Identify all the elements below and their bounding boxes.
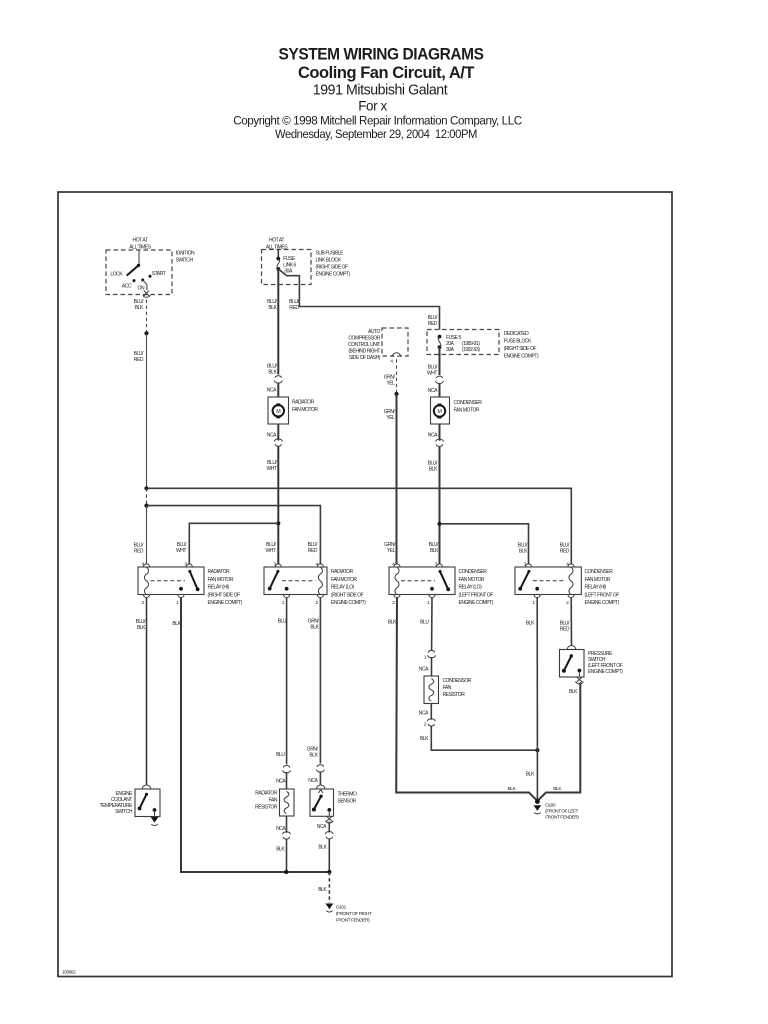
engine coolant temperature switch bbox=[135, 789, 160, 817]
svg-text:WHT: WHT bbox=[266, 466, 276, 472]
svg-text:(1992-93): (1992-93) bbox=[462, 347, 480, 353]
svg-text:NCA: NCA bbox=[317, 824, 327, 830]
svg-text:BLK: BLK bbox=[309, 753, 318, 759]
svg-text:NCA: NCA bbox=[419, 711, 429, 717]
wire GRN/YEL control unit to splice bbox=[384, 359, 397, 394]
wire BLU/RED splice to bus junction bbox=[134, 333, 147, 488]
condenser fan motor label bbox=[454, 400, 483, 414]
thermo sensor bottom connector bbox=[326, 816, 333, 823]
relay radiator fan motor LO label bbox=[331, 569, 366, 606]
relay radiator fan motor HI pin 4 bbox=[142, 562, 150, 568]
relay radiator fan motor HI switch lever bbox=[151, 570, 200, 591]
radiator fan resistor label bbox=[255, 791, 278, 811]
svg-text:DEDICATED: DEDICATED bbox=[504, 331, 529, 337]
relay radiator fan motor LO pin 3 bbox=[273, 562, 281, 568]
svg-text:SUB FUSIBLE: SUB FUSIBLE bbox=[316, 251, 345, 257]
svg-text:AUTO: AUTO bbox=[368, 329, 381, 335]
fuse link 6 bbox=[276, 256, 296, 275]
relay condenser fan motor HI pin 2 bbox=[566, 595, 574, 606]
relay radiator fan motor HI pin 1 bbox=[176, 595, 184, 606]
bus wire BLU/RED to radiator relay LO pin 4 bbox=[147, 506, 321, 565]
hook wire BLU/BLK condenser motor wire to condenser relay HI pin 3 bbox=[440, 524, 529, 564]
svg-text:BLK: BLK bbox=[388, 620, 397, 626]
svg-text:BLK: BLK bbox=[430, 548, 439, 554]
engine coolant temperature switch label bbox=[100, 791, 134, 815]
pressure switch label bbox=[588, 651, 623, 675]
svg-text:NCA: NCA bbox=[267, 388, 277, 394]
svg-text:YEL: YEL bbox=[386, 415, 395, 421]
svg-text:HOT AT: HOT AT bbox=[133, 238, 148, 244]
svg-text:NCA: NCA bbox=[267, 433, 277, 439]
relay radiator fan motor LO pin 1 bbox=[282, 595, 290, 606]
svg-text:ENGINE COMPT): ENGINE COMPT) bbox=[208, 600, 243, 606]
svg-text:HOT AT: HOT AT bbox=[269, 238, 284, 244]
wire BLU/BLK ignition switch to splice bbox=[134, 299, 147, 333]
relay radiator fan motor HI label bbox=[208, 569, 243, 606]
svg-text:SWITCH: SWITCH bbox=[115, 809, 133, 815]
svg-text:G101: G101 bbox=[336, 905, 347, 911]
wire BLK radiator fan resistor to ground run bbox=[276, 816, 290, 872]
svg-text:FAN MOTOR: FAN MOTOR bbox=[292, 407, 318, 413]
svg-text:RELAY (LO): RELAY (LO) bbox=[331, 585, 355, 591]
svg-text:ENGINE COMPT): ENGINE COMPT) bbox=[504, 354, 539, 360]
wire GRN/BLK relay to thermo sensor bbox=[307, 598, 325, 789]
node HOT AT ALL TIMES (fusible link) bbox=[266, 238, 288, 251]
wire dashed between bus junctions bbox=[146, 488, 148, 505]
svg-text:RELAY (HI): RELAY (HI) bbox=[585, 585, 607, 591]
condenser fan resistor bbox=[424, 676, 439, 704]
junction bus 2 left end bbox=[144, 504, 148, 508]
svg-text:RESISTOR: RESISTOR bbox=[255, 805, 278, 811]
svg-text:BLK: BLK bbox=[310, 625, 319, 631]
relay condenser fan motor HI pin 1 bbox=[532, 595, 540, 606]
svg-text:BLK: BLK bbox=[318, 845, 327, 851]
splice GRN/YEL bbox=[394, 392, 398, 396]
svg-text:FAN MOTOR: FAN MOTOR bbox=[585, 577, 611, 583]
relay condenser fan motor HI pin 4 bbox=[566, 562, 574, 568]
svg-text:FUSE BLOCK: FUSE BLOCK bbox=[504, 339, 532, 345]
dedicated fuse block label bbox=[504, 331, 539, 360]
svg-text:BLK: BLK bbox=[420, 736, 429, 742]
svg-text:FAN: FAN bbox=[269, 798, 278, 804]
junction condenser resistor with relay BLK wire bbox=[535, 748, 539, 752]
svg-text:BLK: BLK bbox=[569, 689, 578, 695]
ignition switch label bbox=[176, 251, 195, 264]
svg-text:LOCK: LOCK bbox=[110, 272, 123, 278]
svg-text:ON: ON bbox=[138, 285, 145, 291]
pressure switch bbox=[560, 650, 585, 678]
svg-text:BLU: BLU bbox=[420, 620, 429, 626]
wire BLU/BLK fuse link to radiator fan motor bbox=[267, 269, 278, 376]
ground at engine coolant temperature switch bbox=[151, 817, 159, 823]
svg-text:CONDENSER: CONDENSER bbox=[454, 400, 483, 406]
relay radiator fan motor HI coil bbox=[144, 567, 148, 594]
relay condenser fan motor LO pin 1 bbox=[427, 595, 435, 606]
wire BLK pressure switch to G100 leg bbox=[537, 682, 580, 801]
svg-text:SENSOR: SENSOR bbox=[338, 799, 357, 805]
wire GRN/YEL splice to relay pin 4 bbox=[384, 394, 397, 564]
junction ground run to G101 bbox=[327, 870, 331, 874]
svg-text:ACC: ACC bbox=[122, 283, 132, 289]
svg-text:1991 Mitsubishi Galant: 1991 Mitsubishi Galant bbox=[313, 83, 448, 99]
svg-text:RELAY (LO): RELAY (LO) bbox=[459, 585, 483, 591]
auto compressor control unit label bbox=[348, 329, 381, 361]
svg-text:YEL: YEL bbox=[386, 381, 395, 387]
svg-text:CONDENSER: CONDENSER bbox=[585, 569, 614, 575]
svg-text:FRONT FENDER): FRONT FENDER) bbox=[545, 815, 579, 821]
auto compressor control unit pin 4 bbox=[390, 353, 401, 365]
svg-text:RED: RED bbox=[560, 549, 570, 555]
thermo sensor bbox=[310, 789, 334, 816]
svg-text:For x: For x bbox=[358, 99, 387, 114]
ignition switch bbox=[106, 250, 172, 295]
ground G101 label bbox=[336, 905, 372, 924]
svg-text:BLU: BLU bbox=[276, 752, 285, 758]
ground G101 bbox=[326, 904, 334, 913]
fuse 5 bbox=[438, 335, 481, 353]
inline connector above radiator fan motor bbox=[267, 376, 282, 397]
relay condenser fan motor HI switch lever bbox=[518, 570, 566, 591]
hook wire BLU/WHT radiator relay HI pin 3 to motor wire bbox=[176, 523, 278, 564]
radiator fan motor bbox=[268, 397, 289, 424]
wire BLU/RED to relay pin 4 bbox=[134, 506, 147, 565]
svg-text:SWITCH: SWITCH bbox=[176, 258, 194, 264]
svg-text:Wednesday, September 29, 2004: Wednesday, September 29, 2004 12:00PM bbox=[275, 127, 477, 141]
svg-text:G100: G100 bbox=[545, 803, 556, 809]
junction radiator resistor wire on ground run bbox=[284, 870, 288, 874]
relay condenser fan motor LO pin 3 bbox=[435, 562, 443, 568]
svg-text:NCA: NCA bbox=[428, 433, 438, 439]
svg-text:RADIATOR: RADIATOR bbox=[255, 791, 278, 797]
relay condenser fan motor LO coil bbox=[395, 567, 399, 594]
wire BLK condenser relay LO to G100 leg bbox=[388, 598, 538, 801]
svg-text:(BEHIND RIGHT: (BEHIND RIGHT bbox=[348, 349, 380, 355]
ground G100 label bbox=[545, 803, 579, 821]
svg-text:RED: RED bbox=[308, 548, 318, 554]
junction condenser motor wire with relay hook bbox=[437, 522, 441, 526]
relay radiator fan motor HI box bbox=[138, 567, 204, 595]
svg-text:BLK: BLK bbox=[268, 370, 277, 376]
relay radiator fan motor LO coil bbox=[318, 567, 322, 594]
svg-text:(LEFT FRONT OF: (LEFT FRONT OF bbox=[585, 592, 620, 598]
svg-text:(RIGHT SIDE OF: (RIGHT SIDE OF bbox=[331, 592, 364, 598]
svg-text:BLK: BLK bbox=[172, 621, 181, 627]
connector below ignition switch bbox=[143, 291, 150, 298]
svg-text:FAN: FAN bbox=[443, 685, 452, 691]
wire BLK relay pin 1 down to ground run bbox=[172, 598, 329, 872]
svg-text:RED: RED bbox=[560, 627, 570, 633]
svg-text:BLK: BLK bbox=[268, 305, 277, 311]
svg-text:BLK: BLK bbox=[507, 786, 516, 792]
svg-text:START: START bbox=[152, 271, 166, 277]
svg-text:30A: 30A bbox=[446, 347, 455, 353]
svg-text:CONTROL UNIT: CONTROL UNIT bbox=[348, 342, 380, 348]
sub fusible link block label bbox=[316, 251, 351, 278]
wire BLK dashed to ground G101 bbox=[318, 872, 329, 903]
svg-text:NCA: NCA bbox=[419, 667, 429, 673]
inline connector above condenser fan motor bbox=[428, 376, 444, 397]
relay condenser fan motor LO pin 4 bbox=[392, 562, 400, 568]
svg-text:BLK: BLK bbox=[318, 887, 327, 893]
svg-text:NCA: NCA bbox=[276, 826, 286, 832]
svg-text:WHT: WHT bbox=[427, 371, 437, 377]
svg-text:ENGINE COMPT): ENGINE COMPT) bbox=[331, 600, 366, 606]
svg-text:WHT: WHT bbox=[176, 548, 186, 554]
relay radiator fan motor LO pin 2 bbox=[316, 595, 324, 606]
relay radiator fan motor HI pin 3 bbox=[184, 562, 192, 568]
svg-text:(RIGHT SIDE OF: (RIGHT SIDE OF bbox=[316, 265, 349, 271]
svg-text:BLU: BLU bbox=[278, 619, 287, 625]
svg-text:RED: RED bbox=[289, 305, 299, 311]
wire BLU relay to condenser fan resistor bbox=[419, 598, 436, 676]
relay condenser fan motor HI box bbox=[515, 567, 581, 595]
thermo sensor label bbox=[338, 792, 358, 805]
relay condenser fan motor HI pin 3 bbox=[524, 562, 532, 568]
svg-text:Cooling Fan Circuit, A/T: Cooling Fan Circuit, A/T bbox=[298, 63, 475, 82]
relay condenser fan motor LO label bbox=[459, 569, 494, 606]
svg-text:FUSE: FUSE bbox=[283, 256, 296, 262]
svg-text:RED: RED bbox=[134, 549, 144, 555]
relay condenser fan motor HI label bbox=[585, 569, 620, 606]
svg-text:ENGINE COMPT): ENGINE COMPT) bbox=[585, 600, 620, 606]
svg-text:(LEFT FRONT OF: (LEFT FRONT OF bbox=[459, 592, 494, 598]
wire BLU/BLK relay to engine coolant temperature switch bbox=[136, 598, 147, 785]
svg-text:ENGINE COMPT): ENGINE COMPT) bbox=[459, 600, 494, 606]
svg-text:BLK: BLK bbox=[135, 305, 144, 311]
radiator fan resistor bbox=[280, 789, 295, 816]
bus wire BLU/RED to condenser relay HI pin 4 bbox=[147, 488, 572, 564]
svg-text:BLK: BLK bbox=[276, 847, 285, 853]
svg-text:ENGINE COMPT): ENGINE COMPT) bbox=[316, 272, 351, 278]
radiator fan motor label bbox=[292, 400, 318, 414]
svg-text:THERMO: THERMO bbox=[338, 792, 358, 798]
svg-text:(RIGHT SIDE OF: (RIGHT SIDE OF bbox=[208, 592, 241, 598]
svg-text:RADIATOR: RADIATOR bbox=[331, 569, 354, 575]
wire BLU/RED relay to pressure switch bbox=[560, 598, 576, 650]
wire BLK thermo sensor to ground junction bbox=[317, 822, 333, 873]
svg-text:NCA: NCA bbox=[428, 388, 438, 394]
condenser fan motor bbox=[431, 397, 450, 424]
svg-text:(RIGHT SIDE OF: (RIGHT SIDE OF bbox=[504, 346, 537, 352]
relay radiator fan motor LO switch lever bbox=[268, 570, 316, 591]
engine coolant temperature switch connector bbox=[142, 785, 151, 789]
relay condenser fan motor HI coil bbox=[569, 567, 573, 594]
svg-text:IGNITION: IGNITION bbox=[176, 251, 195, 257]
svg-text:RADIATOR: RADIATOR bbox=[208, 569, 231, 575]
svg-text:BLK: BLK bbox=[519, 549, 528, 555]
wire BLK condenser relay HI pin 1 to ground G100 bbox=[526, 598, 538, 801]
svg-text:NCA: NCA bbox=[308, 778, 318, 784]
splice ignition BLU/BLK to BLU/RED bbox=[144, 331, 148, 335]
relay condenser fan motor LO box bbox=[389, 567, 455, 595]
svg-text:BLK: BLK bbox=[553, 786, 562, 792]
svg-text:SYSTEM WIRING DIAGRAMS: SYSTEM WIRING DIAGRAMS bbox=[279, 45, 484, 64]
pressure switch bottom connector bbox=[576, 677, 584, 684]
ground G100 bbox=[534, 799, 542, 814]
svg-text:ENGINE COMPT): ENGINE COMPT) bbox=[588, 669, 623, 675]
svg-text:WHT: WHT bbox=[265, 548, 275, 554]
svg-text:SIDE OF DASH): SIDE OF DASH) bbox=[349, 355, 381, 361]
relay radiator fan motor LO pin 4 bbox=[316, 562, 324, 568]
svg-text:BLK: BLK bbox=[429, 467, 438, 473]
svg-text:CONDENSER: CONDENSER bbox=[459, 569, 488, 575]
wire BLU/WHT fuse 5 to condenser fan motor bbox=[427, 347, 440, 376]
svg-text:RED: RED bbox=[134, 357, 144, 363]
svg-text:30A: 30A bbox=[284, 269, 293, 275]
junction bus 1 left end bbox=[144, 486, 148, 490]
svg-text:BLK: BLK bbox=[137, 625, 146, 631]
svg-text:FAN MOTOR: FAN MOTOR bbox=[208, 577, 234, 583]
svg-text:RED: RED bbox=[428, 321, 438, 327]
svg-text:(FRONT OF RIGHT: (FRONT OF RIGHT bbox=[336, 911, 372, 917]
node HOT AT ALL TIMES (ignition) bbox=[129, 238, 151, 251]
svg-text:Copyright © 1998 Mitchell Repa: Copyright © 1998 Mitchell Repair Informa… bbox=[233, 114, 522, 128]
svg-text:RESISTOR: RESISTOR bbox=[443, 692, 466, 698]
wire BLU/RED branch from fuse link to dedicated fuse block bbox=[278, 269, 439, 330]
svg-text:BLK: BLK bbox=[526, 772, 535, 778]
condenser fan resistor label bbox=[443, 678, 472, 698]
wire BLU/WHT radiator fan motor to relay pin 3 bbox=[265, 424, 282, 564]
svg-text:COMPRESSOR: COMPRESSOR bbox=[348, 336, 380, 342]
wire BLU relay to radiator fan resistor bbox=[276, 598, 290, 789]
sub fusible link block bbox=[262, 250, 312, 285]
dedicated fuse block bbox=[427, 330, 499, 355]
relay condenser fan motor LO switch lever bbox=[401, 570, 450, 591]
relay radiator fan motor HI pin 2 bbox=[142, 595, 150, 606]
svg-text:103662: 103662 bbox=[62, 970, 76, 976]
junction radiator motor wire with relay hook bbox=[276, 521, 280, 525]
svg-text:YEL: YEL bbox=[387, 548, 396, 554]
svg-text:RELAY (HI): RELAY (HI) bbox=[208, 585, 230, 591]
auto compressor control unit bbox=[382, 328, 408, 356]
svg-text:FAN MOTOR: FAN MOTOR bbox=[459, 577, 485, 583]
svg-text:(FRONT OF LEFT: (FRONT OF LEFT bbox=[545, 809, 578, 815]
svg-text:BLK: BLK bbox=[526, 621, 535, 627]
svg-text:FRONT FENDER): FRONT FENDER) bbox=[336, 918, 370, 924]
svg-text:FAN MOTOR: FAN MOTOR bbox=[454, 408, 480, 414]
wire BLU/BLK condenser fan motor to relay pin 3 bbox=[428, 424, 444, 564]
svg-text:LINK BLOCK: LINK BLOCK bbox=[316, 258, 342, 264]
svg-text:CONDENSOR: CONDENSOR bbox=[443, 678, 472, 684]
svg-text:RADIATOR: RADIATOR bbox=[292, 400, 315, 406]
relay radiator fan motor LO box bbox=[264, 567, 327, 595]
svg-text:NCA: NCA bbox=[276, 779, 286, 785]
wire BLK condenser fan resistor to junction bbox=[419, 704, 538, 751]
svg-text:FAN MOTOR: FAN MOTOR bbox=[331, 577, 357, 583]
relay condenser fan motor LO pin 2 bbox=[392, 595, 400, 606]
